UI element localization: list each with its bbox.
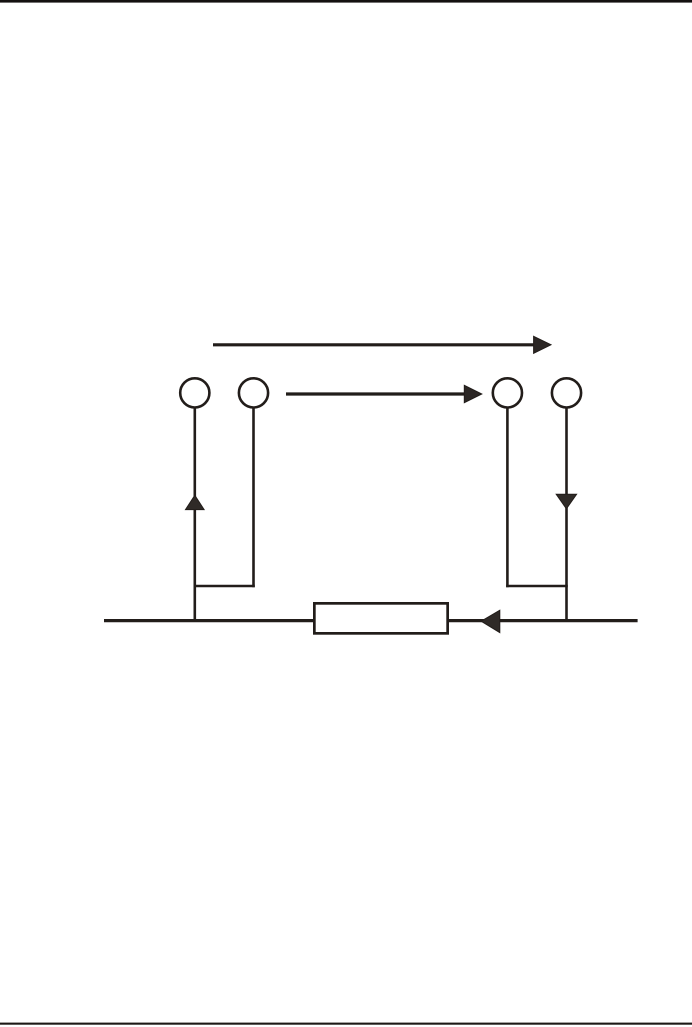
wire W5 (right connector joining W4 and W6) (506, 585, 568, 588)
terminal B1 (493, 378, 522, 407)
energy flow arrow (top) (213, 336, 551, 353)
page header rule (0, 0, 692, 3)
wire W2 (terminal A2 down) (252, 408, 255, 588)
current arrow down on wire W6 (556, 494, 576, 509)
wire W7 (bottom bus line) (104, 619, 638, 622)
terminal A2 (239, 378, 268, 407)
page footer rule (0, 1023, 692, 1025)
current arrow up on wire W1 (186, 495, 205, 509)
resistor R (line resistance box) (314, 603, 447, 633)
terminal A1 (180, 378, 209, 407)
wire W4 (terminal B1 down) (506, 408, 509, 588)
current arrow left on bus (481, 610, 500, 632)
power flow arrow (middle) (286, 385, 482, 402)
terminal B2 (552, 378, 581, 407)
wire W6 (terminal B2 down to bus) (565, 408, 568, 622)
wire W1 (left terminal A1 down to bus) (194, 408, 197, 622)
wire W3 (left connector joining W1 and W2) (194, 585, 255, 588)
